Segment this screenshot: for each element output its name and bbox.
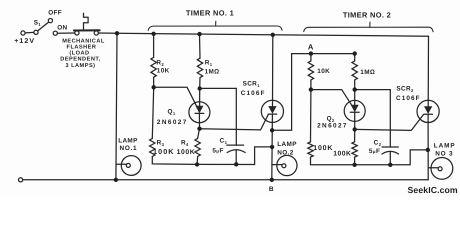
svg-text:ON: ON xyxy=(57,25,67,32)
svg-text:OFF: OFF xyxy=(48,9,62,16)
svg-text:DEPENDENT,: DEPENDENT, xyxy=(60,57,100,63)
svg-text:5μF: 5μF xyxy=(212,147,223,154)
svg-text:100K: 100K xyxy=(153,147,175,156)
svg-text:Q1: Q1 xyxy=(168,108,176,116)
svg-text:A: A xyxy=(308,42,314,51)
svg-text:SCR2: SCR2 xyxy=(396,85,414,93)
svg-text:R3: R3 xyxy=(157,139,165,147)
svg-text:100K: 100K xyxy=(313,145,333,152)
svg-text:TIMER NO. 2: TIMER NO. 2 xyxy=(343,11,391,20)
svg-text:NO.2: NO.2 xyxy=(277,149,293,156)
svg-text:1MΩ: 1MΩ xyxy=(205,68,220,75)
svg-text:C1: C1 xyxy=(220,138,228,146)
svg-text:3 LAMPS): 3 LAMPS) xyxy=(65,62,95,69)
svg-text:C2: C2 xyxy=(374,140,382,148)
svg-text:2N6027: 2N6027 xyxy=(317,122,348,129)
svg-text:R2: R2 xyxy=(156,60,164,68)
svg-text:LAMP: LAMP xyxy=(277,141,297,148)
svg-text:100K: 100K xyxy=(177,149,196,156)
svg-text:1MΩ: 1MΩ xyxy=(360,69,375,76)
svg-text:+12V: +12V xyxy=(14,38,35,45)
svg-text:SeekIC.com: SeekIC.com xyxy=(408,185,458,195)
svg-text:(LOAD: (LOAD xyxy=(69,49,89,56)
svg-text:10K: 10K xyxy=(157,68,170,75)
svg-text:10K: 10K xyxy=(317,68,330,75)
svg-text:R4: R4 xyxy=(181,139,189,147)
svg-text:S1: S1 xyxy=(34,20,42,28)
svg-text:TIMER NO. 1: TIMER NO. 1 xyxy=(186,8,234,17)
svg-text:R1: R1 xyxy=(205,60,213,68)
svg-text:C106F: C106F xyxy=(241,90,266,97)
svg-text:LAMP: LAMP xyxy=(118,138,138,145)
svg-text:C106F: C106F xyxy=(396,95,421,102)
svg-text:NO 3: NO 3 xyxy=(435,151,453,158)
svg-text:5μF: 5μF xyxy=(369,148,380,155)
svg-text:B: B xyxy=(269,186,274,193)
svg-text:SCR1: SCR1 xyxy=(243,81,261,89)
svg-text:2N6027: 2N6027 xyxy=(157,119,188,126)
svg-text:FLASHER: FLASHER xyxy=(67,44,97,50)
svg-text:100K: 100K xyxy=(333,151,351,158)
svg-text:NO.1: NO.1 xyxy=(120,145,138,152)
svg-text:LAMP: LAMP xyxy=(434,142,456,149)
